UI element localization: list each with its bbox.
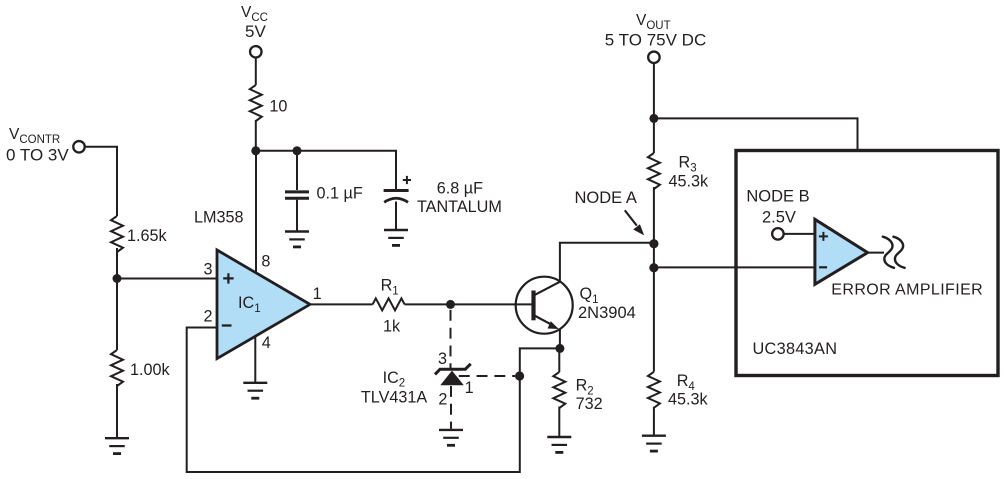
node lower junction	[649, 263, 658, 272]
svg-text:1.00k: 1.00k	[130, 361, 171, 379]
svg-text:0 TO 3V: 0 TO 3V	[6, 146, 69, 165]
wire op-amp pin 8	[255, 151, 257, 273]
svg-text:R3: R3	[679, 154, 697, 175]
terminal VCONTR	[73, 141, 85, 153]
wire op-amp pin 4 to ground	[254, 337, 256, 382]
svg-text:2.5V: 2.5V	[762, 209, 796, 227]
resistor R1	[373, 298, 405, 310]
error amp minus symbol	[819, 266, 827, 268]
svg-text:TANTALUM: TANTALUM	[417, 198, 502, 216]
capacitor 0.1uF	[285, 192, 309, 231]
transistor Q1	[516, 277, 573, 334]
wire error amp output	[868, 252, 884, 254]
op-amp IC1	[217, 250, 310, 359]
node VOUT junction	[649, 114, 658, 123]
wire feedback loop	[187, 328, 560, 473]
ground (op-amp pin 4)	[243, 383, 267, 398]
node VCC rail junction 1	[251, 146, 260, 155]
wire R2 to ground	[558, 407, 560, 437]
svg-text:IC2: IC2	[383, 369, 406, 390]
node divider junction	[113, 274, 122, 283]
svg-text:1: 1	[313, 285, 322, 303]
wire node to op-amp pin 3	[117, 278, 217, 280]
terminal VOUT	[648, 52, 660, 64]
Q1 emitter stroke	[534, 315, 552, 325]
wire IC2 cathode dashed	[450, 310, 452, 368]
resistor 1.00k	[111, 350, 123, 386]
svg-text:10: 10	[269, 97, 287, 115]
wire resistor 10 to rail	[255, 120, 257, 151]
svg-text:VCC: VCC	[241, 4, 268, 24]
svg-text:45.3k: 45.3k	[668, 391, 709, 409]
wire 1.00k to ground	[116, 384, 118, 438]
wire VOUT to UC3843 box	[654, 118, 858, 149]
wire break squiggle	[883, 237, 894, 268]
op-amp minus symbol	[222, 324, 232, 326]
ground (R4)	[642, 436, 666, 451]
svg-text:LM358: LM358	[194, 209, 244, 227]
error amp plus symbol	[819, 232, 828, 241]
wire node to error amp inverting input	[654, 266, 815, 268]
svg-text:3: 3	[438, 350, 447, 368]
terminal VCC	[250, 46, 261, 58]
svg-text:45.3k: 45.3k	[669, 173, 710, 191]
svg-text:VCONTR: VCONTR	[9, 126, 60, 146]
svg-text:TLV431A: TLV431A	[361, 389, 427, 407]
svg-text:1k: 1k	[383, 318, 401, 336]
resistor R3	[648, 153, 660, 189]
node IC2 ref junction	[515, 371, 524, 380]
wire base from R1	[405, 303, 534, 305]
node emitter junction	[555, 344, 564, 353]
svg-text:Q1: Q1	[580, 285, 599, 306]
node R1/base junction	[446, 300, 455, 309]
wire op-amp output to R1	[310, 303, 373, 305]
svg-text:2N3904: 2N3904	[578, 304, 636, 322]
svg-text:ERROR AMPLIFIER: ERROR AMPLIFIER	[831, 281, 983, 298]
node VCC rail junction 2	[293, 146, 302, 155]
op-amp error amplifier	[815, 219, 868, 284]
terminal node B	[772, 228, 784, 240]
ground (6.8uF)	[384, 230, 408, 245]
wire node B to error amp	[784, 233, 815, 235]
wire VCONTR to divider top	[85, 147, 117, 216]
svg-text:2: 2	[438, 391, 447, 409]
IC2 labels	[361, 350, 474, 409]
svg-text:3: 3	[204, 261, 213, 279]
wire collector to node A	[560, 243, 654, 281]
svg-text:5V: 5V	[245, 22, 266, 41]
ground (0.1uF)	[285, 232, 309, 247]
resistor R4	[648, 372, 660, 408]
svg-text:2: 2	[204, 307, 213, 325]
IC2 TLV431A anode triangle	[440, 371, 464, 386]
svg-text:732: 732	[576, 395, 603, 413]
op-amp plus symbol	[223, 273, 233, 283]
Q1 collector stroke	[534, 281, 561, 295]
ground (IC2)	[439, 430, 463, 445]
svg-text:6.8 µF: 6.8 µF	[437, 179, 483, 197]
wire R4 to ground	[653, 407, 655, 435]
node A junction	[649, 239, 658, 248]
svg-text:R1: R1	[381, 277, 399, 298]
svg-text:8: 8	[261, 253, 270, 271]
svg-text:5 TO 75V DC: 5 TO 75V DC	[605, 31, 706, 50]
resistor 10	[250, 85, 262, 121]
Q1 labels	[578, 285, 636, 322]
wire VCC to resistor 10	[255, 58, 257, 85]
IC2 TLV431A cathode bar	[435, 364, 471, 375]
UC3843AN box	[736, 151, 998, 376]
svg-text:4: 4	[262, 334, 271, 352]
plus polarity mark	[403, 176, 411, 184]
Q1 base bar	[531, 291, 535, 321]
svg-text:UC3843AN: UC3843AN	[753, 340, 838, 358]
svg-text:0.1 µF: 0.1 µF	[317, 185, 363, 203]
node A arrow	[625, 210, 637, 225]
resistor 1.65k	[111, 216, 123, 252]
wire IC2 anode dashed to ground	[450, 386, 452, 429]
node VCONTR terminal label	[6, 126, 69, 165]
resistor R2	[553, 372, 565, 408]
ground (divider)	[105, 438, 129, 453]
node VOUT terminal label	[605, 12, 706, 50]
wire emitter junction to R2	[558, 348, 560, 372]
capacitor 6.8uF tantalum	[384, 191, 409, 230]
wire junction 2 to cap 0.1uF	[296, 151, 298, 190]
ground (R2)	[547, 437, 571, 452]
wire VOUT down	[653, 63, 655, 153]
wire emitter down	[559, 330, 561, 349]
svg-text:NODE A: NODE A	[575, 189, 637, 207]
node VCC terminal label	[241, 4, 268, 41]
wire IC2 ref dashed to feedback	[459, 375, 515, 377]
svg-text:1: 1	[465, 379, 474, 397]
svg-text:VOUT: VOUT	[636, 12, 671, 32]
wire 1.65k to node	[116, 248, 118, 350]
Q1 emitter arrowhead	[548, 321, 559, 329]
svg-text:1.65k: 1.65k	[127, 227, 168, 245]
wire R3 to node A	[653, 187, 655, 372]
svg-text:NODE B: NODE B	[746, 188, 809, 206]
node B label	[746, 188, 809, 227]
wire rail to caps	[256, 151, 396, 189]
